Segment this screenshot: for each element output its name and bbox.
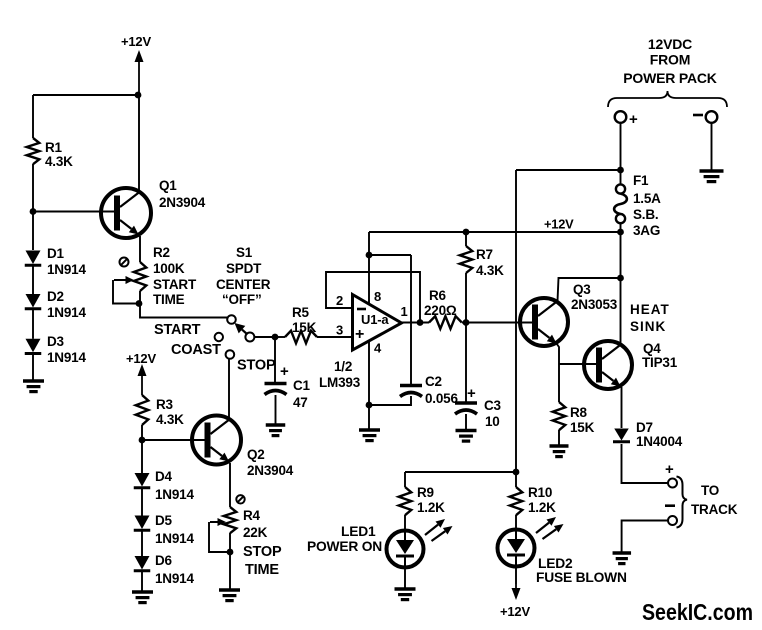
svg-text:4.3K: 4.3K [45,154,73,169]
svg-text:STOP: STOP [237,358,276,374]
svg-text:R3: R3 [156,397,174,412]
wire [516,169,621,171]
svg-text:SPDT: SPDT [226,261,262,276]
capacitor C3 [455,385,502,429]
junction [417,319,424,326]
svg-text:4.3K: 4.3K [156,412,184,427]
svg-text:D6: D6 [155,553,173,568]
terminal - power pack [693,111,717,123]
svg-text:+: + [665,461,674,478]
label STOP [237,358,276,374]
svg-text:1.5A: 1.5A [633,191,661,206]
svg-text:D4: D4 [155,469,173,484]
ground [219,590,240,601]
junction [227,549,234,556]
svg-text:12VDC: 12VDC [648,36,692,52]
junction [366,252,373,259]
svg-text:D7: D7 [636,420,653,435]
svg-text:S.B.: S.B. [633,207,658,222]
node +12V rail [544,217,574,232]
label START [154,322,201,338]
svg-text:LM393: LM393 [319,375,361,390]
svg-text:START: START [154,322,201,338]
diode D6 [134,553,195,586]
svg-text:TO: TO [701,483,719,498]
brace [608,91,727,107]
diode D2 [25,289,87,320]
fuse F1 [614,173,661,238]
wire [32,352,34,381]
svg-text:POWER PACK: POWER PACK [623,70,716,86]
op-amp U1 [319,289,408,390]
wire [515,515,517,529]
ground [266,425,286,436]
svg-text:F1: F1 [633,173,649,188]
svg-text:TIP31: TIP31 [642,355,678,370]
svg-text:1N914: 1N914 [155,487,194,502]
wire [141,425,143,473]
svg-text:Q2: Q2 [247,447,265,462]
ground [550,446,569,457]
wire [622,521,668,554]
junction [617,275,624,282]
potentiometer R2 [120,245,197,307]
label HEAT SINK [630,302,670,334]
wire [620,123,622,170]
svg-text:R4: R4 [243,508,261,523]
wire [32,164,34,250]
wire pin4 [368,341,370,431]
LED LED1 [307,519,453,568]
diode D1 [25,246,87,277]
transistor Q4 [584,341,678,389]
svg-text:SINK: SINK [630,319,666,334]
wire [622,444,669,483]
svg-text:100K: 100K [153,261,185,276]
svg-text:1/2: 1/2 [334,359,352,374]
svg-text:+12V: +12V [126,351,156,366]
ground [613,553,632,564]
wire [254,336,275,338]
svg-text:START: START [153,277,197,292]
svg-text:3: 3 [336,323,343,338]
svg-text:+: + [355,326,364,343]
svg-text:R10: R10 [528,485,552,500]
svg-text:LED1: LED1 [341,524,376,539]
wire [558,430,560,446]
svg-text:15K: 15K [292,320,317,335]
switch S1 pole [245,333,254,342]
wire [462,322,532,324]
svg-text:R2: R2 [153,245,170,260]
wire [141,529,143,556]
svg-text:S1: S1 [236,245,253,260]
svg-text:LED2: LED2 [538,556,573,571]
svg-text:1N914: 1N914 [155,531,194,546]
wire [515,170,517,487]
svg-text:+: + [629,111,638,128]
wire [369,254,411,256]
transistor Q1 [101,178,206,238]
resistor R6 [424,288,462,329]
diode D5 [134,513,195,546]
wire [141,487,143,516]
wire pin2 feedback [326,272,420,323]
ground [395,589,416,600]
svg-text:22K: 22K [243,525,268,540]
junction [366,402,373,409]
resistor R9 [399,485,445,515]
resistor R10 [510,485,556,515]
ground [23,381,44,392]
wire [33,94,138,96]
svg-text:0.056: 0.056 [425,391,458,406]
svg-text:CENTER: CENTER [216,277,271,292]
svg-text:HEAT: HEAT [630,302,670,317]
svg-text:Q4: Q4 [643,341,661,356]
wire [142,439,206,441]
wire [275,395,277,425]
svg-text:C2: C2 [425,374,442,389]
svg-text:1.2K: 1.2K [417,500,445,515]
svg-text:TIME: TIME [245,562,279,578]
svg-text:Q1: Q1 [159,178,177,193]
wire [404,515,406,531]
svg-text:R8: R8 [570,405,588,420]
switch S1 contact COAST [215,333,223,341]
svg-text:R5: R5 [292,305,310,320]
wire [404,569,406,589]
svg-text:R1: R1 [45,140,63,155]
svg-text:D1: D1 [47,246,65,261]
ground [359,430,380,441]
transistor Q3 [520,282,618,346]
terminal + power pack [615,111,638,128]
svg-text:FROM: FROM [650,52,690,68]
wire [274,337,276,383]
wire [140,291,227,318]
svg-text:1N914: 1N914 [47,350,86,365]
ground [456,431,477,442]
wire [620,170,622,185]
switch S1 arm [235,323,248,335]
wire +12V rail [369,231,621,233]
wire [369,396,411,405]
resistor R8 [553,402,595,435]
junction [135,92,142,99]
switch S1 contact STOP [226,350,235,359]
wire [275,336,285,338]
svg-text:C3: C3 [484,398,502,413]
node switch common [272,334,279,341]
svg-text:1N914: 1N914 [47,262,86,277]
wire [317,336,352,338]
diode D7 [613,420,683,449]
svg-text:1N914: 1N914 [47,305,86,320]
svg-text:D5: D5 [155,513,173,528]
svg-text:R9: R9 [417,485,434,500]
svg-text:10: 10 [485,414,500,429]
svg-text:1N4004: 1N4004 [636,434,683,449]
wire [141,570,143,592]
wire [405,471,516,473]
svg-text:2N3053: 2N3053 [571,297,618,312]
resistor R5 [285,305,317,343]
wire [620,223,622,232]
junction [139,437,146,444]
watermark [642,599,753,625]
wire R4 wiper [209,518,230,552]
wire [620,232,622,345]
junction [136,300,143,307]
switch S1 contact START [227,315,236,324]
wire pin8 [368,232,370,305]
wire Q4 emitter [621,387,623,428]
node +12V bottom [500,567,530,619]
wire [711,123,713,171]
svg-text:R7: R7 [476,247,493,262]
svg-text:2N3904: 2N3904 [247,463,294,478]
wire [465,232,467,246]
wire [465,323,467,404]
svg-text:SeekIC.com: SeekIC.com [642,599,753,625]
wire [559,363,597,365]
wire Q3 collector [558,278,621,301]
wire [32,95,34,138]
wire R2 wiper [113,276,139,304]
svg-text:+: + [280,363,289,380]
transistor Q2 [192,416,294,479]
diode D3 [25,334,87,365]
svg-text:C1: C1 [293,378,311,393]
svg-text:TRACK: TRACK [691,502,738,517]
svg-text:D2: D2 [47,289,64,304]
svg-text:47: 47 [293,395,308,410]
svg-text:COAST: COAST [171,342,221,358]
svg-text:1: 1 [401,304,408,319]
wire [229,463,231,507]
svg-text:+12V: +12V [544,217,574,232]
svg-text:“OFF”: “OFF” [222,292,262,307]
wire [465,414,467,431]
svg-text:U1-a: U1-a [361,312,389,327]
svg-text:3AG: 3AG [633,223,660,238]
capacitor C1 [265,363,311,410]
svg-text:+12V: +12V [500,604,530,619]
svg-text:+12V: +12V [121,34,151,49]
svg-text:TIME: TIME [153,292,185,307]
svg-text:1N914: 1N914 [155,571,194,586]
svg-text:4.3K: 4.3K [476,263,504,278]
junction [30,208,37,215]
junction [617,229,624,236]
svg-text:2: 2 [336,293,343,308]
ground [700,171,724,182]
svg-text:+: + [467,385,476,402]
svg-text:2N3904: 2N3904 [159,195,206,210]
wire [228,359,230,420]
label S1 [216,245,271,307]
wire [410,255,412,385]
wire [32,308,34,339]
bracket TO TRACK [677,477,738,528]
resistor R3 [136,395,184,427]
wire [400,322,429,324]
node +12V mid-left [126,351,156,395]
wire [138,95,140,193]
wire [139,236,141,262]
svg-text:POWER ON: POWER ON [307,539,382,554]
svg-text:Q3: Q3 [573,282,591,297]
terminal - track [665,506,677,525]
svg-text:R6: R6 [429,288,447,303]
svg-text:8: 8 [374,289,381,304]
junction [617,167,624,174]
wire [404,472,406,487]
potentiometer R4 [224,495,282,578]
wire [465,273,467,323]
LED LED2 [498,517,627,585]
terminal + track [665,461,677,488]
resistor R1 [27,138,73,169]
wire [229,533,231,590]
svg-text:220Ω: 220Ω [424,303,457,318]
svg-text:4: 4 [374,341,382,356]
label COAST [171,342,221,358]
node +12V top-left [121,34,151,95]
capacitor C2 [400,374,458,406]
junction [513,469,520,476]
label 12VDC FROM POWER PACK [623,36,716,86]
wire [33,211,114,213]
junction [463,229,470,236]
wire Q3 emitter [557,344,560,403]
resistor R7 [460,246,504,278]
svg-text:FUSE BLOWN: FUSE BLOWN [536,570,627,585]
svg-text:1.2K: 1.2K [528,500,556,515]
ground [132,592,153,603]
junction [463,319,470,326]
wire [32,264,34,294]
svg-text:STOP: STOP [243,544,282,560]
svg-text:D3: D3 [47,334,65,349]
diode D4 [134,469,195,502]
svg-text:15K: 15K [570,420,595,435]
